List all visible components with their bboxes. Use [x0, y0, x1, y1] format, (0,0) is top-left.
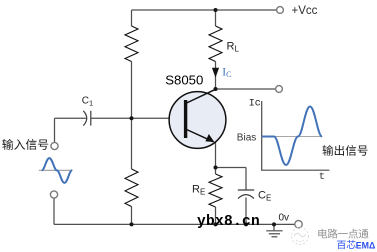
svg-text:ybx8.cn: ybx8.cn: [197, 214, 260, 230]
svg-text:Bias: Bias: [237, 132, 256, 143]
svg-text:EMΔ: EMΔ: [356, 240, 376, 250]
svg-text:+Vcc: +Vcc: [292, 5, 318, 17]
svg-text:S8050: S8050: [165, 72, 203, 87]
svg-text:0v: 0v: [279, 213, 290, 224]
svg-text:Ic: Ic: [249, 98, 261, 109]
svg-text:t: t: [319, 171, 325, 183]
